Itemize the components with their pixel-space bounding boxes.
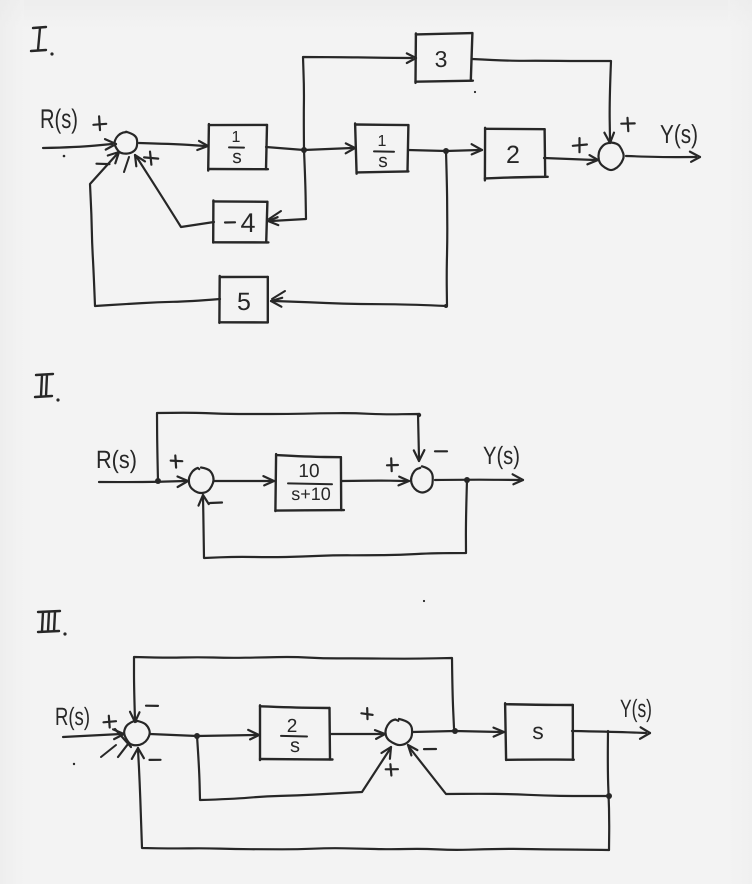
label I. — [31, 27, 54, 56]
corner dot at top right (II) — [417, 413, 421, 417]
arrowhead into first 1/s block — [197, 141, 208, 150]
minus sign at S1 bottom (III) — [150, 759, 161, 761]
arrowhead into S1 left — [105, 139, 116, 150]
label III. — [38, 611, 67, 636]
wire node down to block -4 — [271, 150, 306, 221]
svg-text:2: 2 — [506, 141, 520, 169]
svg-text:R(s): R(s) — [96, 446, 137, 474]
plus sign at S2 bottom (III) — [386, 764, 398, 775]
arrowhead into S2 top (II) — [414, 450, 425, 461]
svg-text:s+10: s+10 — [291, 484, 331, 504]
wire S2 to block s with node A (III) — [412, 731, 501, 732]
arrowhead into second 1/s block — [346, 143, 355, 153]
output arrowhead Y(s) (III) — [640, 727, 650, 739]
wire S1 to block 10/(s+10) — [214, 480, 271, 482]
wire block 2 to S2 — [544, 158, 595, 160]
stray speck diagram I — [474, 91, 476, 93]
node A between S2 and s block (III) — [452, 728, 458, 734]
svg-text:R(s): R(s) — [40, 104, 78, 134]
stray pen dot — [63, 155, 66, 158]
minus sign at S1 top (III) — [146, 705, 158, 707]
plus sign at S2 left input — [573, 138, 587, 152]
svg-text:Y(s): Y(s) — [620, 695, 652, 723]
summing junction S1 (diagram III) — [124, 721, 150, 745]
arrowhead into S2 left (II) — [399, 477, 410, 486]
arrowhead into block -4 right side — [268, 211, 281, 225]
svg-text:s: s — [290, 735, 300, 757]
minus sign at S1 lower-left input — [97, 163, 110, 166]
arrowhead into S1 bottom (III) — [132, 748, 144, 759]
plus sign at S2 left (II) — [387, 458, 398, 471]
arrowhead into block 2 — [472, 144, 482, 154]
label Y(s) output diagram II — [483, 442, 520, 470]
wire R(s) to summing junction S1 (diagram I) — [43, 144, 112, 148]
wire block s to Y(s) output (III) — [572, 731, 646, 733]
extra arrow tick at S1 bottom — [124, 157, 129, 172]
node after S1 (III) — [194, 733, 200, 739]
wire output down to node B and bottom (III) — [608, 731, 609, 850]
arrowhead into S1 bottom (II) — [199, 495, 209, 506]
wire node up to block 3 feed — [303, 57, 412, 150]
arrowhead into S2 lower-right (III) — [408, 745, 417, 755]
label R(s) input diagram III — [55, 703, 90, 731]
wire S2 to Y(s) output (II) — [435, 479, 519, 482]
wire node down to block 5 — [274, 151, 447, 306]
plus sign at S2 top input — [621, 118, 634, 131]
node after second 1/s — [443, 148, 449, 154]
block s (diagram III) — [505, 703, 574, 760]
plus sign at S1 left (III) — [104, 716, 117, 728]
wire S1 to block 1/s (first) — [139, 143, 205, 146]
corner dot at feedback corner — [444, 304, 448, 308]
block G2 = 1/s (second integrator, diagram I) — [355, 124, 408, 174]
wire first 1/s to second 1/s with node — [266, 147, 352, 150]
wire R(s) to S1 (diagram III) — [63, 734, 121, 737]
svg-text:1: 1 — [232, 129, 241, 146]
minus sign at S2 right (III) — [424, 748, 436, 750]
arrowhead into S1 from 5 path — [108, 152, 119, 163]
stray speck left of R(s) III — [73, 763, 75, 765]
svg-text:3: 3 — [435, 46, 448, 72]
arrowhead into S1 left (III) — [113, 729, 124, 739]
block 2/s (diagram III) — [260, 705, 333, 760]
node pickoff after S2 (II) — [464, 477, 470, 483]
svg-text:5: 5 — [237, 288, 251, 316]
arrowhead into S1 left (II) — [178, 477, 189, 488]
arrowhead into block 10/(s+10) — [263, 476, 274, 485]
arrowhead into S2 top — [604, 133, 614, 143]
minus sign at S1 bottom (II) — [210, 501, 222, 504]
svg-text:R(s): R(s) — [55, 703, 90, 731]
wire S1 to 2/s with node (III) — [150, 734, 256, 736]
minus sign at S2 top (II) — [435, 450, 447, 452]
svg-text:s: s — [532, 718, 544, 744]
svg-text:10: 10 — [298, 461, 319, 482]
wire pickoff up and over to S2 top (II) — [157, 413, 419, 481]
block 2 (gain, diagram I) — [485, 128, 548, 181]
label Y(s) output diagram III — [620, 695, 652, 723]
block G1 = 1/s (first integrator, diagram I) — [208, 124, 268, 171]
node pickoff before S1 (diagram II) — [155, 478, 161, 484]
svg-text:2: 2 — [287, 716, 298, 737]
wire node B to S2 lower-right input (III) — [409, 747, 609, 796]
wire S1 top up and over to node A (III) — [134, 657, 454, 728]
block -4 (inner feedback, diagram I) — [213, 200, 268, 242]
wire S2 to Y(s) output — [626, 156, 696, 157]
arrowhead into S2 bottom-left (III) — [382, 747, 392, 759]
summing junction S2 (diagram I) — [598, 143, 623, 171]
plus sign at S1 left input — [93, 116, 106, 130]
plus sign at S1 left (II) — [171, 456, 183, 468]
label Y(s) output diagram I — [660, 119, 698, 149]
svg-text:s: s — [232, 147, 242, 168]
block 3 (feedforward, diagram I) — [416, 33, 473, 83]
stray speck above diagram III — [423, 600, 425, 602]
svg-text:4: 4 — [240, 208, 255, 238]
block 5 (outer feedback, diagram I) — [219, 276, 267, 323]
label II. — [35, 374, 60, 402]
output arrowhead Y(s) (II) — [513, 474, 523, 484]
arrowhead into S2 left — [587, 155, 598, 164]
svg-text:Y(s): Y(s) — [660, 119, 698, 149]
summing junction S1 (diagram I) — [115, 132, 138, 154]
node B on right vertical (III) — [606, 793, 612, 799]
extra arrow ticks at S1 (III) — [101, 729, 131, 757]
arrowhead into S2 left (III) — [375, 730, 385, 739]
output arrowhead Y(s) diagram I — [690, 152, 700, 162]
arrowhead into S1 from -4 path — [135, 155, 145, 166]
wire block 3 to summing junction S2 top — [472, 59, 611, 140]
wire block -4 to S1 lower-right input — [136, 156, 214, 227]
wire bottom feedback (II) — [203, 480, 467, 558]
summing junction S1 (diagram II) — [189, 468, 214, 494]
wire second 1/s to block 2 with node — [408, 150, 479, 151]
wire bottom loop to S1 bottom (III) — [138, 750, 609, 850]
wire 2/s to S2 (III) — [330, 733, 382, 735]
plus sign at S1 lower-right input — [144, 152, 158, 165]
svg-text:Y(s): Y(s) — [483, 442, 520, 470]
arrowhead into block 5 right side — [271, 291, 285, 307]
wire block 5 to S1 lower-left input — [90, 153, 220, 306]
block 10/(s+10) (diagram II) — [275, 454, 344, 511]
label R(s) input diagram II — [96, 446, 137, 474]
node after first 1/s — [301, 147, 307, 153]
svg-text:1: 1 — [378, 133, 387, 150]
plus sign at S2 upper-left (III) — [361, 708, 372, 719]
arrowhead into block 3 — [407, 53, 416, 63]
summing junction S2 (diagram III) — [385, 719, 412, 745]
arrowhead into block s — [494, 728, 505, 737]
label R(s) input diagram I — [40, 104, 78, 134]
summing junction S2 (diagram II) — [411, 466, 433, 492]
wire R(s) to S1 (diagram II) — [99, 481, 185, 482]
wire node down and right to S2 bottom-left (III) — [197, 736, 390, 800]
arrowhead into block 2/s — [248, 730, 259, 740]
arrowhead into S1 top (III) — [130, 712, 140, 722]
wire block to S2 (II) — [342, 480, 406, 483]
svg-text:s: s — [378, 151, 388, 172]
